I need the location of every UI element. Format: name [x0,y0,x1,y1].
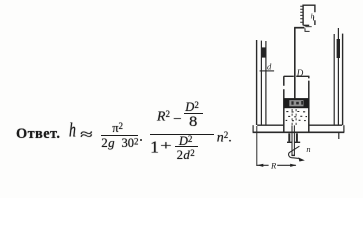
svg-text:d: d [267,62,272,72]
right tube line a [333,34,335,125]
small fraction D^2 over 2d^2 numerator [179,135,193,148]
bearing left foot [287,141,292,143]
left tube line b [265,41,267,125]
small fraction bar2 [175,146,198,147]
shaft through bottom [292,125,294,155]
svg-text:h: h [311,12,315,21]
scale ruler box [303,5,315,25]
piston lighter core [289,100,303,106]
small fraction denominator 8 [189,115,197,130]
liquid dots below piston [286,112,307,121]
bearing left post [288,133,290,142]
R right arrowhead [290,164,296,167]
crank arrowhead [298,157,305,161]
liquid level line d [260,70,275,72]
pointer bracket [305,28,310,31]
R extension line [256,126,258,166]
small fraction bar [184,113,203,114]
bottom left cap [252,125,254,132]
right foot [338,132,340,139]
fraction2 main bar [150,134,214,135]
piston body [284,98,309,108]
piston rod [294,28,296,99]
svg-text:n: n [306,145,310,154]
R left arrowhead [257,164,263,167]
word Otvet [16,127,60,141]
approx sign [80,128,93,143]
outer vessel right wall [342,34,344,125]
pointer line [305,26,311,28]
svg-text:D: D [296,68,304,78]
small fraction denominator 2d^2 [177,149,196,162]
left tube liquid [262,47,266,57]
inner cylinder left wall [283,76,285,132]
plus sign [160,140,172,154]
ruler tick marks [300,6,303,22]
rod arm [294,27,304,29]
h down arrow [312,16,314,20]
svg-text:R: R [270,160,277,170]
small fraction D^2 over 8 numerator [185,101,199,114]
rod hidden dashed lines below piston [292,109,296,125]
fraction1 bar [101,135,139,136]
n squared period [217,131,232,145]
bearing right post [296,133,298,142]
left tube line a [260,41,262,125]
right tube liquid [337,39,340,58]
inner cylinder top edge [284,75,310,77]
minus sign [173,112,182,126]
bottom right cap [343,125,345,132]
fraction2 numerator R^2 [157,110,170,124]
fraction1 denominator 2g 30^2 [101,136,115,149]
inner cylinder right wall [308,76,310,132]
vessel inner bottom right [309,124,342,126]
right tube line b with upper tick [337,28,339,125]
piston specks [291,101,303,105]
variable h [69,122,76,142]
vessel outer bottom [253,131,345,133]
crank curved arrow [289,146,300,158]
R dimension line right [277,164,296,166]
denominator 1 [150,138,159,155]
R dimension line left [257,164,269,166]
vessel inner bottom left [257,124,283,126]
multiplication dot [140,139,142,141]
shaft bottom cap [291,154,295,156]
fraction1 numerator pi^2 [112,122,123,135]
denominator 30 squared [122,137,139,150]
outer vessel left wall [256,40,258,125]
bearing right foot [294,141,300,143]
